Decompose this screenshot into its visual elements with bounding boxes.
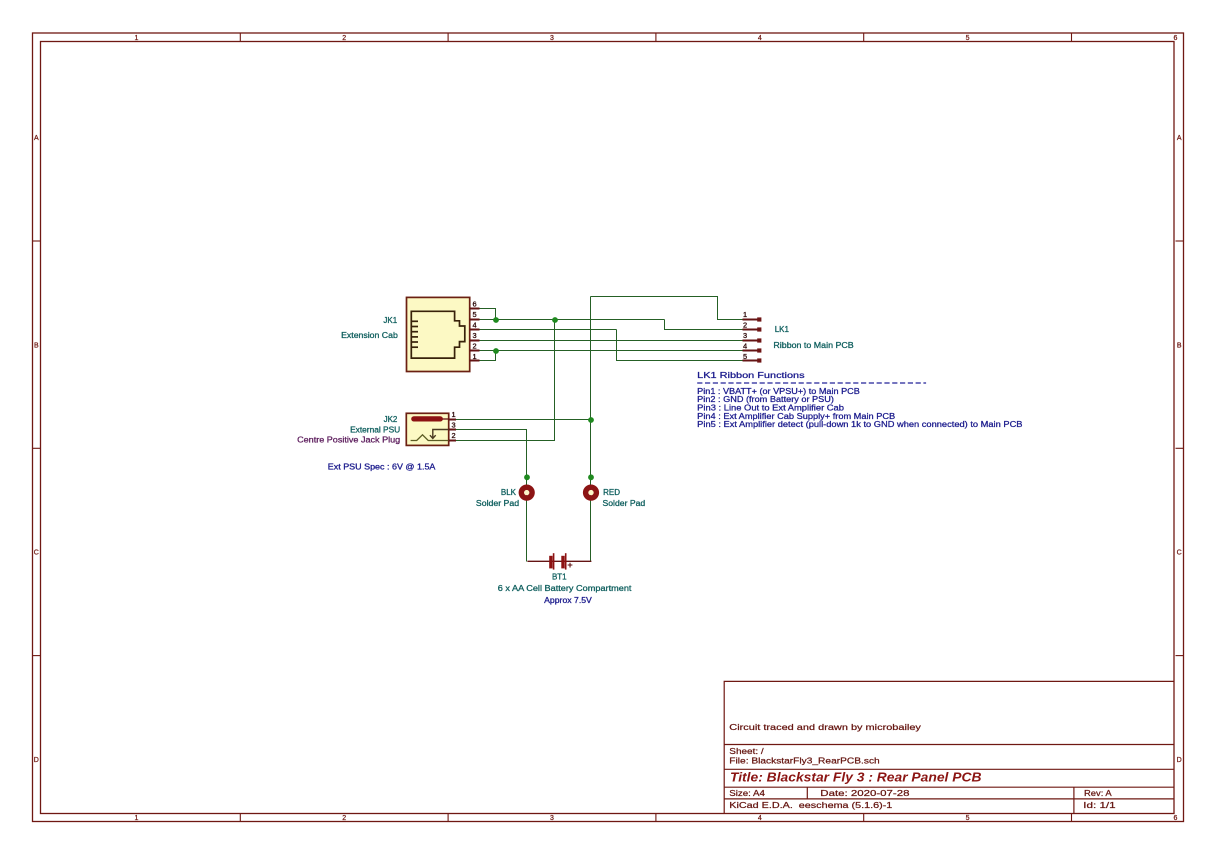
- svg-text:Circuit traced and drawn by mi: Circuit traced and drawn by microbailey: [729, 723, 922, 732]
- svg-text:Centre Positive Jack Plug: Centre Positive Jack Plug: [297, 435, 400, 444]
- svg-text:3: 3: [550, 35, 554, 42]
- svg-text:A: A: [1177, 135, 1182, 142]
- svg-text:2: 2: [342, 815, 346, 822]
- svg-text:5: 5: [966, 35, 970, 42]
- svg-text:Ribbon to Main PCB: Ribbon to Main PCB: [773, 341, 853, 350]
- note dashed underline: [697, 382, 926, 384]
- svg-text:Size: A4: Size: A4: [729, 789, 765, 798]
- svg-text:6 x AA Cell Battery Compartmen: 6 x AA Cell Battery Compartment: [498, 584, 633, 593]
- wire JK1 pin4 row: [480, 329, 617, 331]
- svg-text:5: 5: [743, 352, 747, 361]
- wire JK2 pin3 down to BLK pad and battery: [456, 430, 527, 562]
- svg-text:D: D: [34, 757, 39, 764]
- svg-text:2: 2: [743, 321, 747, 330]
- svg-text:B: B: [1177, 342, 1182, 349]
- svg-text:1: 1: [135, 815, 139, 822]
- svg-text:3: 3: [743, 331, 747, 340]
- svg-text:Extension Cab: Extension Cab: [341, 331, 398, 340]
- svg-text:Id: 1/1: Id: 1/1: [1083, 801, 1116, 810]
- border row letters: [34, 135, 1182, 764]
- svg-text:2: 2: [473, 341, 477, 350]
- svg-text:A: A: [34, 135, 39, 142]
- JK2 pin numbers: [452, 410, 456, 440]
- wire jog to LK1 pin5: [617, 330, 743, 361]
- JK2 switch arrow (pin 3 internal): [430, 430, 449, 439]
- wire jog to LK1 pin2: [665, 320, 743, 330]
- junction dots: [493, 317, 594, 480]
- wire JK1 pin5 row: [480, 319, 665, 321]
- border column numbers: [135, 35, 1178, 822]
- svg-text:Title: Blackstar Fly 3 : Rear: Title: Blackstar Fly 3 : Rear Panel PCB: [730, 770, 982, 784]
- svg-text:Solder Pad: Solder Pad: [476, 499, 519, 508]
- svg-text:C: C: [34, 550, 39, 557]
- BLK solder pad: [521, 487, 532, 498]
- LK1 pin numbers: [743, 310, 747, 361]
- title block: [724, 681, 1174, 813]
- svg-text:JK2: JK2: [384, 415, 398, 424]
- LK1 pad squares: [757, 317, 761, 362]
- svg-text:File: BlackstarFly3_RearPCB.sc: File: BlackstarFly3_RearPCB.sch: [729, 757, 880, 766]
- JK2 sleeve contact zigzag (pin 2 internal): [411, 435, 449, 441]
- svg-text:BLK: BLK: [501, 488, 517, 497]
- wire JK1 pin1 to pin2 net: [480, 351, 496, 361]
- svg-text:2: 2: [452, 431, 456, 440]
- wire pin5 net down to JK2 pin2: [456, 320, 555, 441]
- svg-text:1: 1: [135, 35, 139, 42]
- svg-text:External PSU: External PSU: [350, 425, 400, 434]
- svg-text:B: B: [34, 342, 39, 349]
- svg-text:1: 1: [452, 410, 456, 419]
- svg-text:1: 1: [473, 352, 477, 361]
- wire JK1 pin3 to LK1 pin3: [480, 340, 743, 342]
- JK1 pin stubs: [470, 309, 480, 361]
- svg-text:RED: RED: [603, 488, 620, 497]
- JK1 RJ jack inner outline: [411, 311, 465, 358]
- svg-text:5: 5: [473, 310, 477, 319]
- RED solder pad: [586, 487, 597, 498]
- svg-text:1: 1: [743, 310, 747, 319]
- svg-text:C: C: [1177, 550, 1182, 557]
- svg-text:6: 6: [1173, 815, 1177, 822]
- svg-text:4: 4: [758, 35, 762, 42]
- wire JK1 pin6 to pin5 net: [480, 309, 496, 320]
- svg-text:Ext PSU Spec : 6V @ 1.5A: Ext PSU Spec : 6V @ 1.5A: [328, 462, 436, 471]
- JK2 pin stubs: [449, 420, 456, 441]
- title block comment text: [729, 723, 922, 732]
- svg-text:5: 5: [966, 815, 970, 822]
- JK2 barrel pin lead: [441, 418, 449, 420]
- svg-text:+: +: [567, 560, 573, 571]
- title block sheet/file: [729, 747, 880, 765]
- connector LK1 pin stubs and pads: [742, 320, 759, 361]
- svg-text:4: 4: [758, 815, 762, 822]
- svg-text:D: D: [1177, 757, 1182, 764]
- svg-text:BT1: BT1: [552, 573, 567, 582]
- svg-text:Date: 2020-07-28: Date: 2020-07-28: [820, 789, 910, 798]
- svg-text:3: 3: [473, 331, 477, 340]
- svg-text:6: 6: [1173, 35, 1177, 42]
- svg-text:Pin5 : Ext Amplifier detect (p: Pin5 : Ext Amplifier detect (pull-down 1…: [697, 420, 1022, 429]
- svg-text:Approx 7.5V: Approx 7.5V: [544, 596, 592, 605]
- JK2 barrel: [411, 416, 443, 421]
- svg-text:6: 6: [473, 300, 477, 309]
- svg-text:JK1: JK1: [383, 316, 397, 325]
- svg-text:3: 3: [452, 421, 456, 430]
- wire JK2 pin1 to positive net: [456, 419, 591, 421]
- svg-text:Sheet: /: Sheet: /: [729, 747, 764, 756]
- title block kicad/id: [729, 801, 1116, 810]
- battery BT1: [527, 553, 591, 569]
- wire JK1 pin2 to LK1 pin4: [480, 350, 743, 352]
- wire top to LK1 pin1: [591, 297, 743, 320]
- svg-text:KiCad E.D.A. eeschema (5.1.6): KiCad E.D.A. eeschema (5.1.6)-1: [729, 801, 893, 810]
- connector JK1 body: [407, 297, 470, 371]
- svg-text:Rev: A: Rev: A: [1084, 789, 1112, 798]
- wire positive net vertical: [590, 297, 592, 562]
- svg-text:LK1: LK1: [775, 325, 790, 334]
- svg-text:3: 3: [550, 815, 554, 822]
- svg-text:4: 4: [743, 341, 747, 350]
- svg-text:LK1 Ribbon Functions: LK1 Ribbon Functions: [697, 371, 804, 380]
- wires: [456, 297, 742, 562]
- svg-text:Solder Pad: Solder Pad: [603, 499, 646, 508]
- connector JK2 body: [406, 413, 448, 445]
- title block size/date/rev: [729, 789, 1112, 798]
- svg-text:2: 2: [342, 35, 346, 42]
- svg-text:4: 4: [473, 321, 477, 330]
- JK1 pin numbers: [473, 300, 477, 361]
